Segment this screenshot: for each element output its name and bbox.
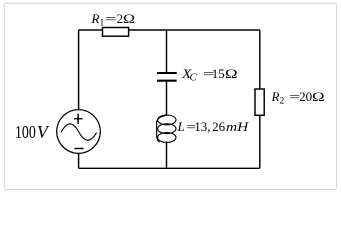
AC source minus sign <box>75 148 84 150</box>
wire right vertical <box>259 30 261 168</box>
AC source circle <box>57 110 101 154</box>
wire middle branch upper <box>166 30 168 72</box>
AC source sine wave <box>61 124 97 140</box>
value label 100V source voltage <box>15 124 48 142</box>
value label L = 13,26 mH <box>178 120 246 133</box>
wire middle between capacitor and inductor <box>166 82 168 116</box>
AC source plus sign <box>77 114 79 124</box>
inductor L coil <box>157 113 176 142</box>
value label R2 = 20 Ohm <box>272 90 322 107</box>
wire left vertical <box>78 30 80 168</box>
resistor R1 <box>103 28 129 37</box>
wire top <box>79 29 260 31</box>
wire bottom <box>79 167 260 169</box>
value label R1 = 2 Ohm <box>92 12 133 29</box>
capacitor XC plates <box>157 72 177 74</box>
value label XC = 15 Ohm <box>182 67 235 84</box>
resistor R2 <box>255 89 264 115</box>
wire middle branch lower <box>166 142 168 169</box>
